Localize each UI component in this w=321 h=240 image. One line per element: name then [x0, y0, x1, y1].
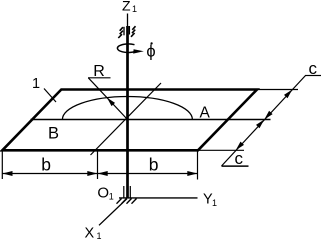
c bottom underline: [222, 165, 249, 167]
R underline: [88, 77, 111, 79]
b dimension extension line left: [1, 152, 3, 180]
b dimension extension line middle: [97, 152, 99, 180]
arrow left b outer: [2, 171, 12, 176]
ground hatch marks: [117, 199, 137, 204]
svg-text:A: A: [200, 105, 211, 122]
rotation arc phi: [117, 44, 137, 53]
svg-text:1: 1: [97, 231, 102, 239]
svg-text:B: B: [48, 125, 59, 143]
b dimension extension line right: [197, 152, 199, 180]
c dimension front extension line: [198, 149, 244, 151]
torsion spring squiggle right: [129, 26, 135, 37]
semicircle arc R on plate: [62, 97, 192, 120]
arrow c back: [284, 90, 292, 99]
origin bearing line left: [123, 186, 125, 198]
svg-text:ϕ: ϕ: [146, 43, 155, 61]
arrow c mid down: [264, 111, 272, 120]
arrow left b inner: [87, 171, 97, 176]
svg-text:c: c: [235, 149, 244, 168]
R radius leader: [88, 78, 127, 120]
svg-text:1: 1: [132, 4, 137, 14]
plate outline: [2, 90, 257, 151]
svg-text:b: b: [149, 155, 159, 175]
axis Z1 shaft thick: [126, 26, 129, 198]
b dimension line: [2, 173, 197, 175]
arrow right b inner: [98, 171, 108, 176]
svg-text:Z: Z: [122, 0, 131, 14]
arrow c front: [236, 142, 244, 151]
leader tick for label 1: [44, 89, 56, 103]
svg-text:1: 1: [212, 198, 217, 208]
svg-text:1: 1: [109, 192, 114, 202]
diagonal line through center (X direction): [91, 83, 162, 155]
c dimension diagonal line: [222, 76, 306, 167]
torsion spring squiggle left: [118, 27, 124, 38]
plate middle line (extends right as extension line): [31, 119, 271, 121]
svg-text:O: O: [97, 185, 109, 202]
axis X1 line: [99, 199, 127, 226]
svg-text:b: b: [41, 155, 51, 175]
R arrowhead at arc: [107, 98, 115, 107]
arrow c mid up: [256, 120, 264, 129]
c top underline: [305, 75, 321, 77]
axis Z1 shaft thin top: [127, 14, 129, 29]
arrow right b outer: [187, 171, 197, 176]
svg-text:X: X: [85, 226, 95, 240]
rotation arrowhead: [133, 49, 144, 53]
axis Y1 ground line: [119, 197, 198, 199]
c dimension back extension line: [257, 89, 298, 91]
origin bearing line right: [129, 186, 131, 198]
svg-text:1: 1: [32, 76, 40, 92]
